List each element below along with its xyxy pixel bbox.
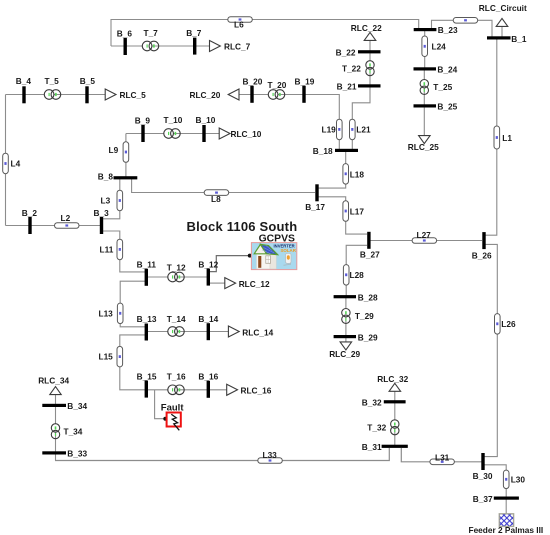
svg-text:B_33: B_33 <box>67 448 87 458</box>
svg-text:L13: L13 <box>99 308 114 318</box>
svg-text:B_8: B_8 <box>98 171 114 181</box>
bus B_23 <box>414 25 458 35</box>
svg-text:B_6: B_6 <box>117 29 133 39</box>
svg-text:RLC_Circuit: RLC_Circuit <box>479 3 527 13</box>
svg-text:B_26: B_26 <box>472 250 492 260</box>
svg-text:B_32: B_32 <box>362 397 382 407</box>
load RLC_12 <box>225 278 270 289</box>
line L26 <box>495 314 516 335</box>
line L1 <box>494 126 512 149</box>
transformer T_14 <box>167 314 186 336</box>
bus B_9 <box>135 116 151 143</box>
line L11 <box>100 239 123 260</box>
transformer T_32 <box>367 420 399 435</box>
svg-text:L17: L17 <box>350 207 365 217</box>
svg-text:L1: L1 <box>502 133 512 143</box>
bus B_13 <box>137 314 157 340</box>
svg-text:B_2: B_2 <box>22 208 38 218</box>
wire top loop B_6 to B_23 <box>111 20 419 47</box>
line L3 <box>101 190 123 211</box>
svg-text:RLC_12: RLC_12 <box>239 279 270 289</box>
line L17 <box>343 201 364 222</box>
bus B_26 <box>472 232 492 260</box>
wire B_27 to B_26 via L27 <box>371 240 483 242</box>
svg-text:T_25: T_25 <box>433 82 452 92</box>
wire row B_13/T_14/B_14/RLC_14 <box>148 331 229 333</box>
bus B_10 <box>196 115 216 142</box>
wire B_33 to B_31 via L33 <box>55 448 389 461</box>
svg-text:L31: L31 <box>435 452 450 462</box>
wire B_27 to B_28 via L28 <box>346 245 367 295</box>
svg-text:B_17: B_17 <box>305 202 325 212</box>
bus B_11 <box>137 260 157 286</box>
line L9 <box>109 142 129 163</box>
transformer T_16 <box>167 372 186 395</box>
line L6 <box>228 17 253 30</box>
svg-text:B_34: B_34 <box>67 401 87 411</box>
transformer T_5 <box>44 76 60 99</box>
svg-text:B_28: B_28 <box>358 292 378 302</box>
wire B_28/T_29/B_29/RLC_29 column <box>345 298 347 342</box>
wire RLC_32/B_32/T_32/B_31 column <box>394 391 396 445</box>
svg-text:RLC_22: RLC_22 <box>351 23 382 33</box>
svg-text:T_16: T_16 <box>167 372 186 382</box>
svg-text:B_27: B_27 <box>360 250 380 260</box>
wire B_30 to B_37 via L30 <box>484 465 506 497</box>
svg-text:B_12: B_12 <box>198 259 218 269</box>
wire B_19 to B_18 via L19 <box>306 95 340 150</box>
svg-text:L3: L3 <box>101 196 111 206</box>
bus B_31 <box>362 442 408 452</box>
bus B_3 <box>94 208 110 234</box>
wire row RLC_20/B_20/T_20/B_19 <box>239 94 303 96</box>
svg-text:B_25: B_25 <box>437 102 457 112</box>
wire row B_4/T_5/B_5 <box>6 94 106 96</box>
svg-text:L11: L11 <box>100 244 114 254</box>
line L21 <box>350 119 371 140</box>
wire B_8 to B_17 via L8 <box>132 179 315 193</box>
bus B_7 <box>186 28 202 55</box>
wire row B_11/T_12/B_12 <box>148 276 208 278</box>
wire B_8 to B_9 via L9 <box>125 134 127 177</box>
wire B_23 to B_1 <box>432 20 493 37</box>
bus B_21 <box>337 81 381 91</box>
svg-text:L28: L28 <box>350 270 365 280</box>
svg-text:T_14: T_14 <box>167 314 186 324</box>
wire B_17 to B_27 via L17 <box>318 197 367 234</box>
svg-text:L6: L6 <box>234 19 244 29</box>
bus B_2 <box>22 208 38 234</box>
GCPVS PV system picture <box>248 233 297 269</box>
bus B_14 <box>198 314 218 340</box>
line L18 <box>343 164 364 185</box>
wire B_26 to B_30 <box>484 244 497 456</box>
svg-text:GCPVS: GCPVS <box>259 233 295 244</box>
wire B_3 to B_11 via L11 <box>103 231 145 272</box>
svg-text:B_13: B_13 <box>137 314 157 324</box>
bus B_20 <box>243 77 263 103</box>
wire row B_6/T_7/B_7 <box>111 45 210 47</box>
transformer T_7 <box>142 28 158 51</box>
feeder Feeder 2 Palmas III <box>469 514 544 535</box>
load RLC_5 <box>105 89 146 100</box>
bus B_37 <box>473 494 519 504</box>
svg-text:L24: L24 <box>432 41 447 51</box>
svg-text:L9: L9 <box>109 145 119 155</box>
svg-text:L21: L21 <box>356 124 371 134</box>
bus B_33 <box>42 448 87 458</box>
wire B_15 to Fault <box>155 390 166 419</box>
load RLC_29 <box>329 342 360 359</box>
load RLC_25 <box>408 136 439 153</box>
wire row B_2/L2/B_3 <box>6 225 101 227</box>
load RLC_Circuit <box>479 3 527 26</box>
wire B_21 to B_18 via L21 <box>352 88 370 150</box>
bus B_1 <box>487 34 527 44</box>
wire row B_9/T_10/B_10 <box>126 133 219 135</box>
bus B_30 <box>473 453 493 481</box>
bus B_4 <box>16 76 32 103</box>
line L31 <box>430 452 455 464</box>
svg-text:T_7: T_7 <box>144 28 159 38</box>
line L4 <box>3 153 21 174</box>
wire RLC_Circuit stem <box>501 26 503 37</box>
svg-text:B_7: B_7 <box>186 28 202 38</box>
svg-text:B_18: B_18 <box>313 146 333 156</box>
load RLC_34 <box>38 375 69 394</box>
svg-text:T_29: T_29 <box>355 311 374 321</box>
wire B_31 to B_30 via L31 <box>401 448 482 462</box>
bus B_17 <box>305 184 325 212</box>
svg-text:B_10: B_10 <box>196 115 216 125</box>
svg-text:SOLAR: SOLAR <box>281 248 297 253</box>
load RLC_22 <box>351 23 382 40</box>
svg-text:B_23: B_23 <box>438 25 458 35</box>
svg-text:RLC_16: RLC_16 <box>241 386 272 396</box>
bus B_19 <box>295 77 315 103</box>
svg-text:L2: L2 <box>61 213 71 223</box>
svg-text:B_3: B_3 <box>94 208 110 218</box>
fault element <box>161 402 185 430</box>
svg-text:B_11: B_11 <box>137 260 157 270</box>
transformer T_25 <box>420 80 452 95</box>
svg-text:L27: L27 <box>417 230 432 240</box>
wire RLC_22/B_22/T_22/B_21 column <box>369 40 371 85</box>
wire left column L4 <box>5 95 7 226</box>
svg-text:T_32: T_32 <box>367 422 386 432</box>
svg-text:L4: L4 <box>11 159 21 169</box>
wire B_12 to GCPVS <box>210 256 251 272</box>
svg-text:B_22: B_22 <box>336 47 356 57</box>
svg-text:B_15: B_15 <box>137 371 157 381</box>
transformer T_22 <box>342 61 374 76</box>
svg-text:RLC_5: RLC_5 <box>120 90 147 100</box>
svg-text:B_4: B_4 <box>16 76 32 86</box>
svg-text:RLC_20: RLC_20 <box>190 90 221 100</box>
svg-text:RLC_32: RLC_32 <box>377 374 408 384</box>
line L27 <box>412 230 437 243</box>
wire B_18 to B_17 via L18 <box>318 152 346 189</box>
line L28 <box>343 265 364 286</box>
transformer T_20 <box>268 80 287 99</box>
line L2 <box>55 213 80 228</box>
transformer T_29 <box>342 309 374 324</box>
transformer T_12 <box>167 263 186 282</box>
load RLC_10 <box>219 128 262 139</box>
line L33 <box>258 450 283 463</box>
transformer T_10 <box>164 115 183 138</box>
load RLC_14 <box>228 326 273 337</box>
svg-text:T_34: T_34 <box>64 426 83 436</box>
svg-text:B_37: B_37 <box>473 494 493 504</box>
wire RLC_34/B_34/T_34/B_33 column <box>55 395 57 461</box>
svg-text:B_20: B_20 <box>243 77 263 87</box>
line L15 <box>99 346 123 367</box>
bus B_32 <box>362 397 406 407</box>
svg-text:B_30: B_30 <box>473 471 493 481</box>
bus B_27 <box>360 232 380 260</box>
svg-text:L19: L19 <box>322 124 337 134</box>
svg-text:L26: L26 <box>501 319 516 329</box>
svg-text:RLC_14: RLC_14 <box>242 327 273 337</box>
svg-text:RLC_7: RLC_7 <box>224 41 251 51</box>
svg-text:B_1: B_1 <box>511 34 527 44</box>
svg-text:L30: L30 <box>511 474 526 484</box>
svg-text:B_9: B_9 <box>135 116 151 126</box>
line L8 <box>204 190 229 204</box>
line L24 <box>422 36 446 57</box>
bus B_22 <box>336 47 381 57</box>
svg-text:B_29: B_29 <box>358 332 378 342</box>
load RLC_7 <box>210 41 251 52</box>
load RLC_16 <box>227 384 272 395</box>
line L13 <box>99 303 124 324</box>
bus B_34 <box>42 401 87 411</box>
bus B_24 <box>414 64 458 74</box>
bus B_15 <box>137 371 157 397</box>
svg-text:Fault: Fault <box>161 402 185 413</box>
bus B_25 <box>414 102 458 112</box>
svg-text:B_19: B_19 <box>295 77 315 87</box>
svg-text:RLC_34: RLC_34 <box>38 375 69 385</box>
svg-text:T_22: T_22 <box>342 63 361 73</box>
bus B_28 <box>334 292 378 302</box>
svg-text:B_24: B_24 <box>437 64 457 74</box>
load RLC_32 <box>377 374 408 391</box>
svg-text:B_21: B_21 <box>337 81 357 91</box>
wire B_12 to RLC_12 <box>210 282 225 284</box>
svg-text:RLC_10: RLC_10 <box>231 129 262 139</box>
svg-text:B_14: B_14 <box>198 314 218 324</box>
svg-text:T_10: T_10 <box>164 115 183 125</box>
svg-text:B_16: B_16 <box>198 372 218 382</box>
wire B_1 to B_26 <box>485 39 497 235</box>
wire B_23 to B_24 via L24 <box>424 31 426 68</box>
wire B_11 to B_13 via L13 <box>120 281 145 327</box>
wire B_8 to B_3 via L3 <box>103 179 120 219</box>
svg-text:L8: L8 <box>211 194 221 204</box>
wire B_13 to B_15 via L15 <box>120 335 145 390</box>
svg-text:RLC_25: RLC_25 <box>408 142 439 152</box>
svg-text:B_5: B_5 <box>80 76 96 86</box>
svg-text:L15: L15 <box>99 352 114 362</box>
svg-text:T_5: T_5 <box>45 76 60 86</box>
bus B_16 <box>198 372 218 398</box>
svg-text:L18: L18 <box>350 170 365 180</box>
svg-text:L33: L33 <box>263 450 278 460</box>
line L30 <box>503 470 525 489</box>
line L19 <box>322 119 343 140</box>
load RLC_20 <box>190 89 240 100</box>
bus B_12 <box>198 259 218 285</box>
svg-text:T_12: T_12 <box>167 263 186 273</box>
transformer T_34 <box>51 424 82 439</box>
svg-text:Block 1106 South: Block 1106 South <box>187 219 298 234</box>
bus B_29 <box>334 332 378 342</box>
wire row B_15/T_16/B_16/RLC_16 <box>148 389 227 391</box>
bus B_6 <box>117 29 133 55</box>
bus B_5 <box>80 76 96 103</box>
wire B_25 to RLC_25 <box>423 108 425 136</box>
svg-text:B_31: B_31 <box>362 442 382 452</box>
svg-text:T_20: T_20 <box>268 80 287 90</box>
svg-text:RLC_29: RLC_29 <box>329 349 360 359</box>
bus B_18 <box>313 146 358 156</box>
wire B_37 to Feeder <box>505 500 507 515</box>
svg-text:Feeder 2 Palmas III: Feeder 2 Palmas III <box>469 525 544 535</box>
bus B_8 <box>98 171 138 181</box>
wire B_24 to B_25 via T_25 <box>423 71 425 105</box>
line L23 (unnamed) <box>453 18 478 24</box>
